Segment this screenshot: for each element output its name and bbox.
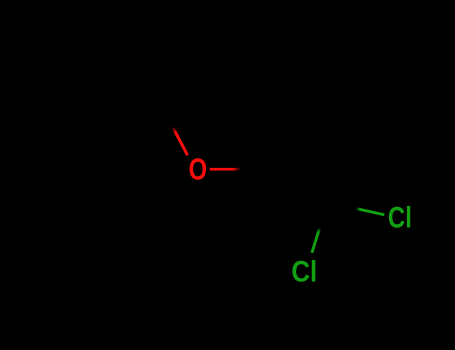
bond O-CH2 (red half, upper-left diagonal) <box>173 127 188 155</box>
bond C2-Cl lower (green half) <box>312 228 320 253</box>
svg-text:O: O <box>189 152 208 187</box>
bond O-C1 (red half, horizontal) <box>210 168 241 171</box>
svg-text:Cl: Cl <box>291 255 317 288</box>
svg-text:Cl: Cl <box>388 200 412 234</box>
bond C2-Cl right (green half) <box>356 209 385 215</box>
